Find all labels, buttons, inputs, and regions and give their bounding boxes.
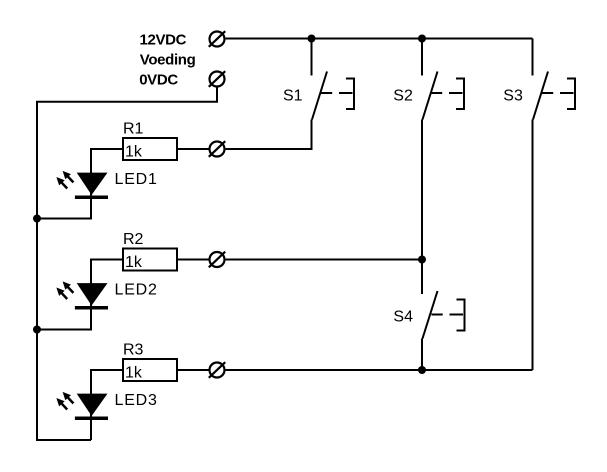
svg-text:S1: S1: [283, 88, 303, 105]
svg-text:1k: 1k: [125, 143, 143, 160]
svg-text:1k: 1k: [125, 254, 143, 271]
svg-text:R2: R2: [123, 231, 144, 248]
svg-text:LED3: LED3: [115, 392, 158, 409]
svg-text:12VDC: 12VDC: [140, 32, 187, 49]
svg-text:0VDC: 0VDC: [139, 71, 178, 88]
svg-text:S2: S2: [393, 88, 413, 105]
svg-text:R3: R3: [123, 341, 144, 358]
svg-text:LED1: LED1: [115, 171, 158, 188]
svg-text:R1: R1: [123, 120, 144, 137]
svg-text:S4: S4: [393, 309, 413, 326]
svg-text:1k: 1k: [125, 364, 143, 381]
svg-text:LED2: LED2: [115, 281, 158, 298]
svg-text:Voeding: Voeding: [140, 51, 196, 68]
svg-text:S3: S3: [503, 88, 523, 105]
